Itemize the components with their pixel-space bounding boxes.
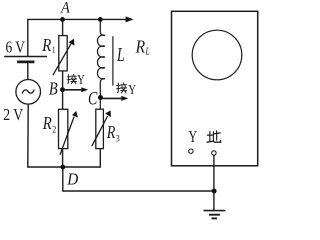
svg-text:Y: Y	[189, 127, 198, 146]
svg-text:D: D	[66, 170, 79, 189]
svg-text:R: R	[135, 37, 145, 57]
svg-text:Y: Y	[128, 82, 136, 97]
svg-text:R: R	[41, 35, 51, 55]
svg-text:2: 2	[52, 125, 56, 135]
svg-text:B: B	[49, 78, 58, 98]
svg-text:R: R	[42, 113, 52, 133]
svg-text:R: R	[106, 122, 115, 142]
svg-text:1: 1	[52, 46, 56, 56]
svg-text:3: 3	[116, 134, 120, 144]
svg-text:C: C	[88, 90, 98, 110]
svg-text:L: L	[145, 46, 150, 57]
svg-text:L: L	[116, 45, 124, 66]
svg-text:6 V: 6 V	[6, 38, 26, 57]
svg-text:Y: Y	[77, 72, 85, 87]
svg-text:A: A	[60, 0, 70, 17]
svg-text:2 V: 2 V	[3, 105, 24, 124]
